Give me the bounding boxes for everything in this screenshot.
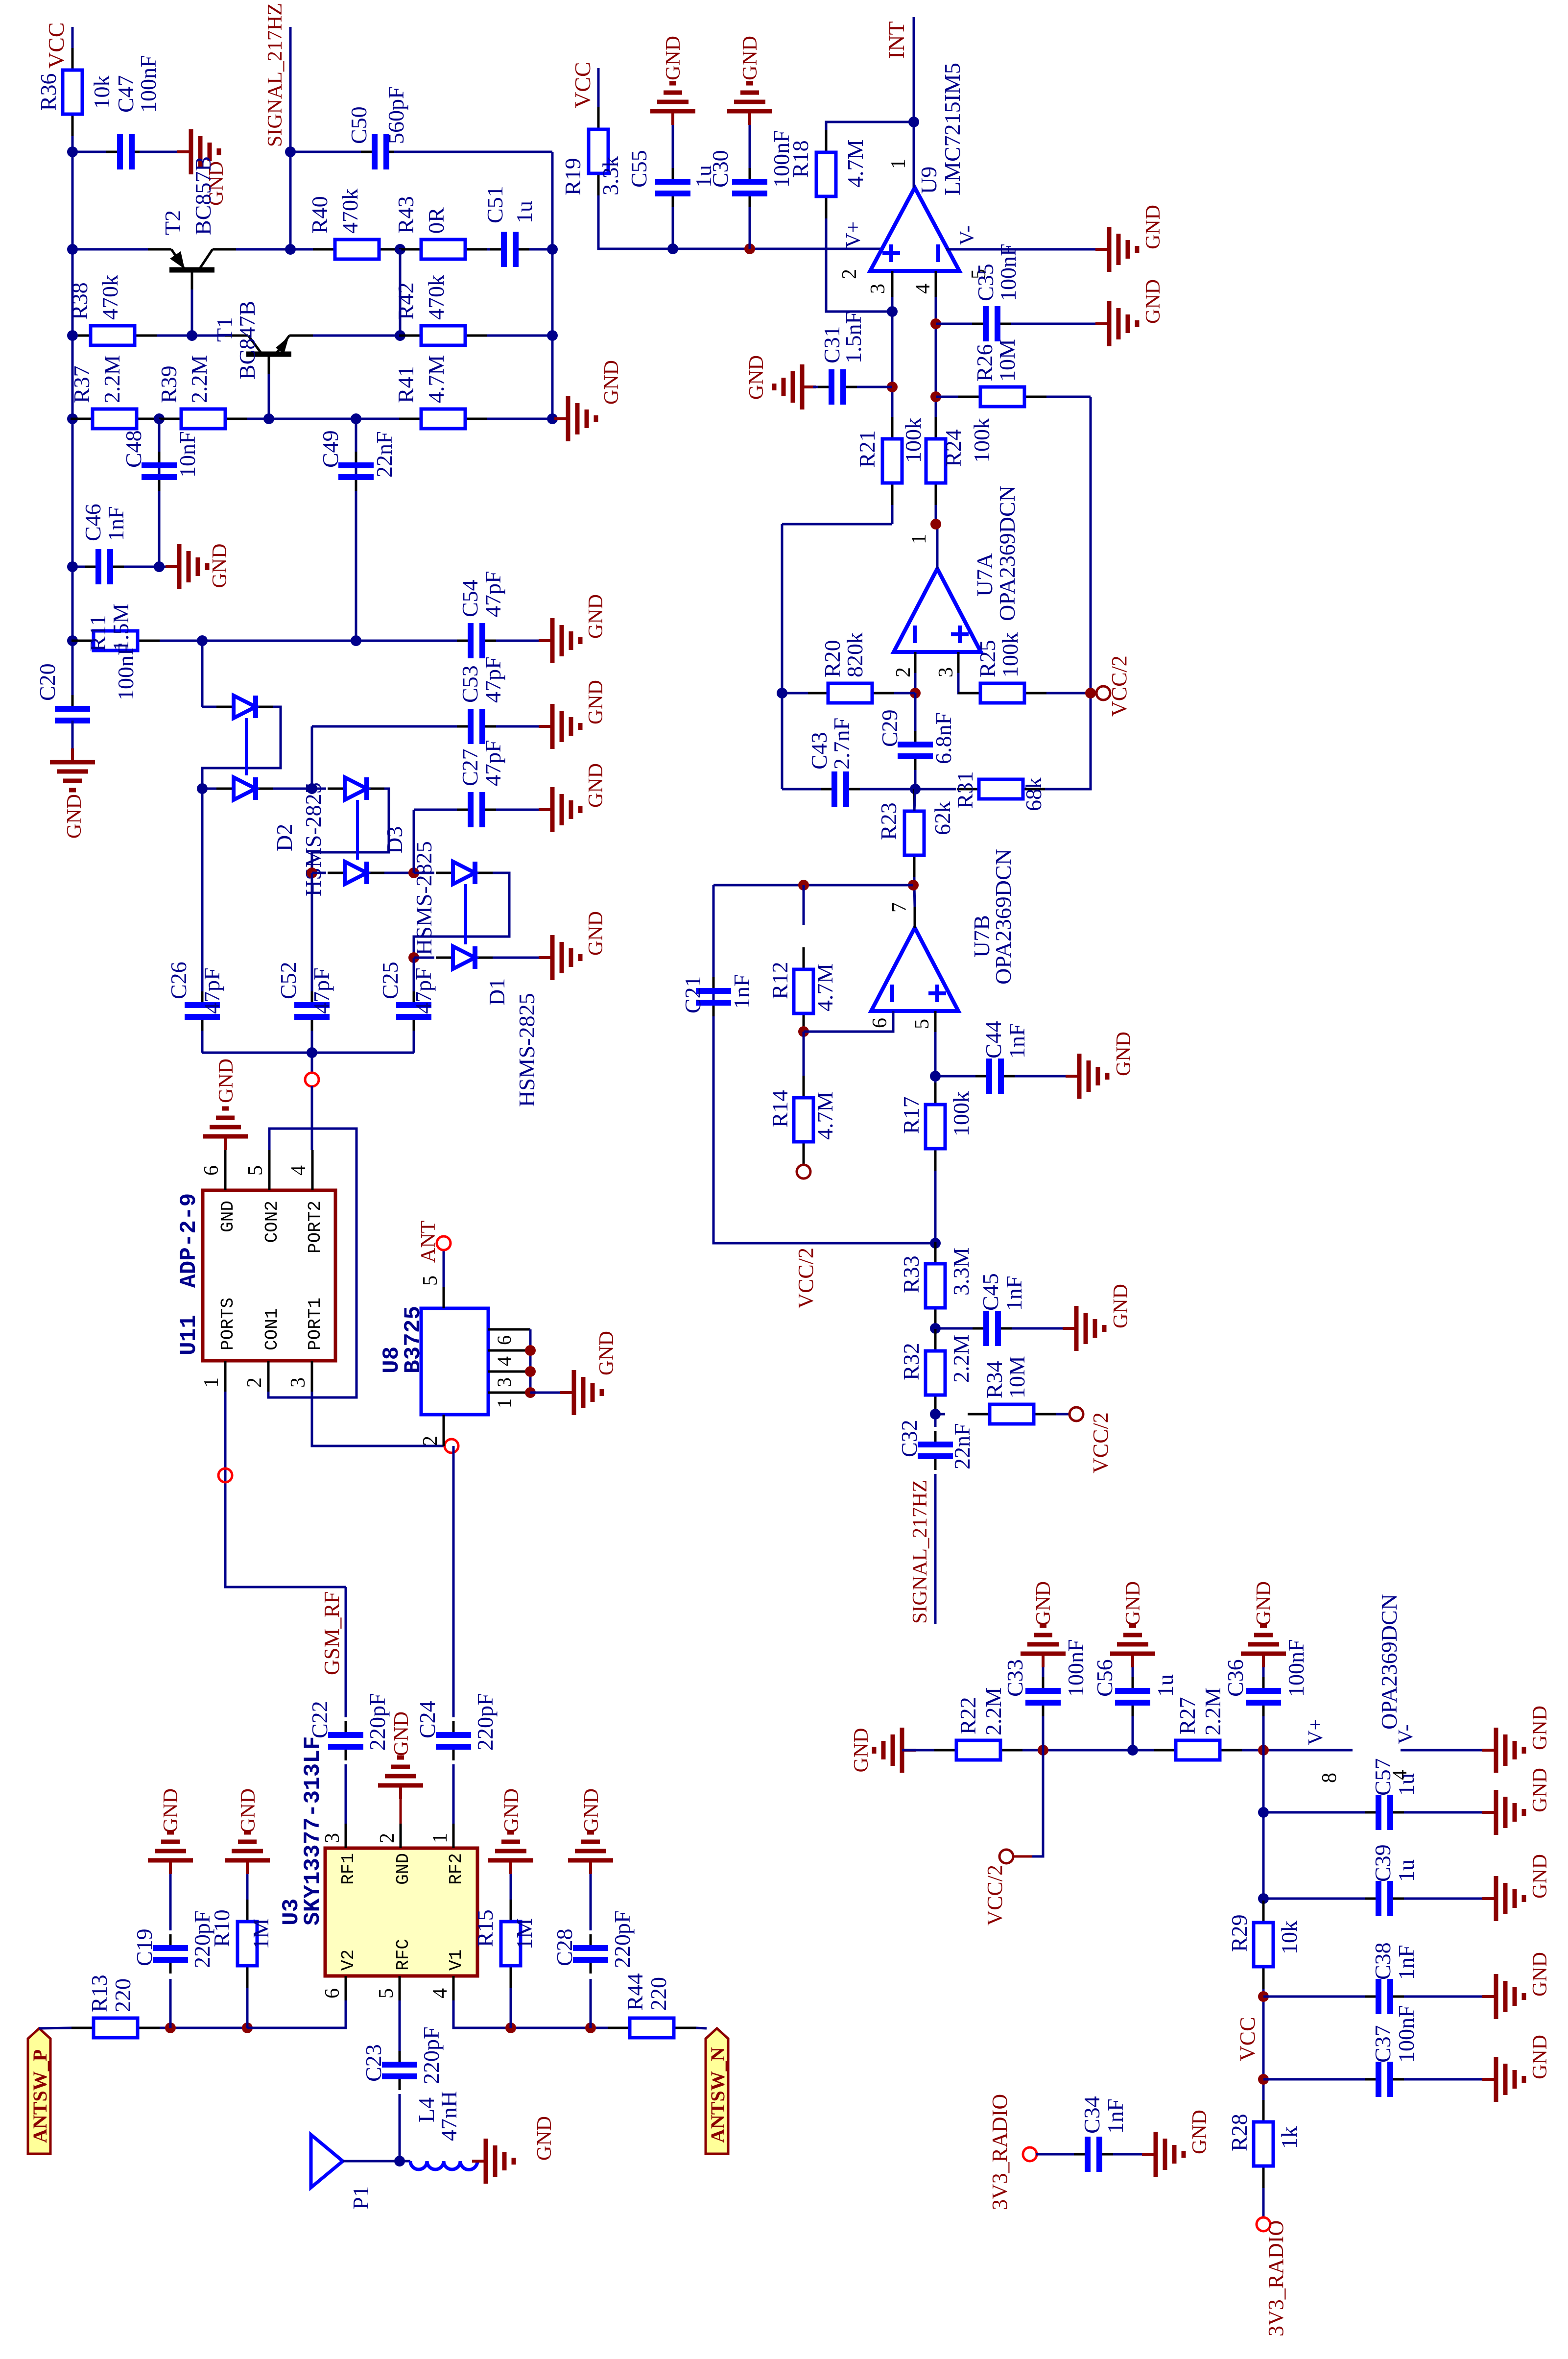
junction pin7 node (908, 880, 919, 891)
svg-text:GND: GND (600, 360, 623, 405)
svg-text:R34: R34 (982, 1361, 1007, 1398)
wire gnd stub (552, 418, 568, 420)
svg-text:C43: C43 (807, 732, 832, 770)
junction (395, 244, 405, 255)
diode D1 upper half (436, 872, 453, 874)
capacitor C53 (457, 725, 471, 728)
wire C44 to gnd (1015, 1075, 1066, 1078)
ground at C55 (671, 111, 674, 125)
svg-text:2: 2 (243, 1377, 266, 1388)
resistor R33 (934, 1308, 937, 1330)
svg-text:VCC: VCC (44, 22, 69, 69)
wire R40 R43 C51 column x=4302 (290, 248, 313, 251)
ground at C45 (1063, 1327, 1076, 1330)
U3 pin 1 lead (452, 1824, 455, 1848)
U8 pin 2 lead (443, 1415, 445, 1446)
wire R42 to y=1128 (487, 335, 552, 337)
wire to C32 (934, 1417, 937, 1427)
junction (547, 244, 558, 255)
resistor R14 (803, 1142, 805, 1164)
wire C53 to gnd (496, 725, 552, 728)
resistor R10 (246, 1966, 249, 1988)
svg-text:ANTSW_N: ANTSW_N (707, 2047, 729, 2143)
svg-text:L4: L4 (414, 2097, 439, 2122)
svg-text:R36: R36 (36, 73, 61, 111)
wire R43 to C51 (487, 248, 491, 251)
wire D2a z-link (202, 707, 281, 789)
wire node1 to C26 (202, 788, 216, 790)
wire R13 to junction (160, 2027, 247, 2029)
junction C39 (1258, 1893, 1269, 1904)
svg-text:5: 5 (419, 1276, 442, 1286)
junction C55 (667, 243, 678, 254)
wire C21 line y=1457 (713, 885, 935, 1243)
svg-text:V+: V+ (1305, 1719, 1327, 1745)
wire D3a z-link (312, 789, 389, 873)
wire U9 output INT (913, 17, 915, 188)
svg-text:1k: 1k (1277, 2126, 1302, 2149)
ground at L4 (472, 2160, 486, 2163)
svg-text:R10: R10 (209, 1909, 234, 1947)
junction C19 tee (165, 2022, 176, 2033)
wire U7B pin5 lead (934, 1011, 937, 1032)
resistor R38 (69, 335, 91, 337)
svg-text:47nH: 47nH (436, 2091, 461, 2141)
svg-text:C22: C22 (307, 1701, 332, 1738)
ground at C34 (1142, 2153, 1156, 2156)
junction C56 (1127, 1745, 1138, 1756)
wire branch x=4302 to x=4126 at y=817 (399, 249, 402, 336)
svg-text:C21: C21 (680, 976, 705, 1013)
capacitor C50 (361, 151, 375, 153)
svg-text:6.8nF: 6.8nF (931, 712, 956, 764)
junction R10 tee (242, 2022, 253, 2033)
svg-text:OPA2369DCN: OPA2369DCN (991, 849, 1016, 985)
svg-text:4: 4 (429, 1988, 451, 1998)
svg-text:R13: R13 (87, 1974, 112, 2012)
svg-text:RF2: RF2 (446, 1853, 466, 1885)
wire detector rail to U11 PORT2 (311, 1053, 313, 1073)
wire to R41 (356, 418, 421, 420)
wire R18 left lead to pin3 (826, 218, 892, 312)
svg-text:C52: C52 (276, 962, 301, 999)
svg-text:GND: GND (500, 1788, 523, 1833)
wire SIGNAL_217HZ y=593 (289, 27, 292, 249)
svg-text:10nF: 10nF (175, 431, 200, 478)
resistor R12 (803, 1013, 805, 1035)
svg-text:1M: 1M (248, 1918, 273, 1950)
wire C28 to gnd (590, 1874, 592, 1930)
junction R12 (798, 880, 809, 891)
ground at R15 (509, 1860, 512, 1874)
svg-text:1M: 1M (512, 1918, 537, 1950)
resistor R44 (608, 2027, 630, 2029)
junction C36 (1258, 1745, 1269, 1756)
wire C57 to gnd (1404, 1811, 1482, 1814)
capacitor C36 (1262, 1703, 1265, 1716)
svg-text:VCC/2: VCC/2 (1107, 655, 1131, 717)
svg-text:5: 5 (911, 1019, 933, 1029)
junction node3 (307, 867, 317, 878)
ground at C28 (589, 1860, 592, 1874)
junction (395, 330, 405, 341)
resistor R25 (958, 692, 980, 695)
svg-text:100k: 100k (901, 418, 926, 463)
junction R15 tee (505, 2022, 516, 2033)
capacitor C33 (1042, 1703, 1045, 1716)
svg-text:RF1: RF1 (338, 1853, 358, 1885)
svg-text:C19: C19 (132, 1928, 157, 1966)
junction T2 base (187, 330, 197, 341)
resistor R36 (71, 114, 74, 136)
svg-text:GND: GND (1110, 1284, 1132, 1328)
svg-text:1nF: 1nF (103, 506, 128, 541)
capacitor C37 (1365, 2078, 1378, 2081)
svg-text:GND: GND (393, 1853, 413, 1885)
wire C45 to gnd (1012, 1327, 1063, 1330)
junction VCC/2 (1085, 688, 1096, 698)
wire GSM_RF net pin3 to C22 (345, 1764, 347, 1824)
svg-text:OPA2369DCN: OPA2369DCN (1377, 1594, 1402, 1730)
svg-text:GND: GND (585, 911, 607, 956)
wire C36 to gnd (1262, 1667, 1265, 1677)
wire to R42 (400, 335, 421, 337)
svg-text:1nF: 1nF (729, 974, 754, 1009)
wire R37 line x=3956 (72, 418, 93, 420)
wire x=3741 to R20 line (781, 524, 784, 693)
U11 pin 4 lead (311, 1150, 314, 1190)
wire C30 to gnd (749, 125, 751, 168)
junction (154, 561, 165, 572)
capacitor C32 (934, 1456, 937, 1470)
svg-text:2.2M: 2.2M (949, 1335, 974, 1383)
terminal VCC/2 at R14 (797, 1165, 810, 1179)
svg-text:VCC/2: VCC/2 (1089, 1412, 1113, 1473)
svg-text:4: 4 (493, 1356, 515, 1366)
svg-text:GND: GND (1529, 2035, 1551, 2079)
flag ANTSW_N (706, 2028, 728, 2154)
svg-text:V-: V- (956, 226, 978, 245)
wire to C54 (356, 640, 471, 642)
svg-text:4: 4 (287, 1165, 310, 1176)
svg-text:100nF: 100nF (1283, 1639, 1308, 1697)
svg-text:C35: C35 (973, 264, 998, 301)
svg-text:68k: 68k (1021, 777, 1046, 811)
ground at C30 (748, 111, 751, 125)
svg-text:C46: C46 (80, 504, 105, 541)
svg-text:R29: R29 (1227, 1914, 1252, 1952)
U3 pin 4 lead (452, 1976, 455, 2000)
resistor R15 (510, 1966, 512, 1988)
op-amp U7A (894, 569, 981, 652)
svg-text:C26: C26 (166, 962, 191, 999)
wire R20 to junction (894, 692, 915, 695)
wire C50 branch x=4501 (290, 151, 363, 153)
junction C33 (1038, 1745, 1048, 1756)
ground at C35 (1095, 322, 1109, 325)
diode D1 lower half (436, 957, 453, 959)
svg-text:GND: GND (215, 1059, 238, 1103)
diode D3 lower half (328, 872, 345, 874)
wire flag P to R13 (39, 2028, 72, 2028)
svg-text:1: 1 (493, 1398, 515, 1408)
wire node4 to C27 corner (413, 810, 415, 873)
svg-text:10k: 10k (1277, 1921, 1302, 1954)
svg-text:GND: GND (1122, 1581, 1144, 1626)
wire to gnd (159, 566, 179, 568)
wire C46 line x=3654 (72, 566, 93, 568)
junction (67, 244, 78, 255)
diode D3 package link (356, 800, 359, 860)
wire R15 to gnd (510, 1874, 512, 1900)
svg-text:SIGNAL_217HZ: SIGNAL_217HZ (264, 3, 286, 147)
svg-text:62k: 62k (930, 801, 955, 835)
svg-text:R25: R25 (975, 640, 1000, 677)
junction rail R38 (67, 330, 78, 341)
wire R44 to flag N (696, 2028, 707, 2028)
svg-text:2: 2 (376, 1833, 399, 1843)
wire y=1128 bus (551, 152, 554, 419)
wire C54 to gnd (496, 640, 552, 642)
svg-text:100nF: 100nF (1063, 1639, 1088, 1697)
junction (525, 1345, 536, 1356)
svg-text:6: 6 (321, 1988, 344, 1998)
svg-text:2.2M: 2.2M (99, 355, 124, 403)
wire R14 to VCC/2 term (803, 1164, 805, 1165)
diode D3 upper half (312, 788, 326, 790)
U11 pin 3 lead (311, 1361, 313, 1392)
wire pin2- lead of U7A (914, 652, 917, 673)
wire pin3+ lead of U7A via R25 (957, 652, 960, 673)
svg-text:R21: R21 (855, 430, 879, 468)
svg-text:GND: GND (1142, 205, 1164, 249)
wire T2 base lead (191, 270, 193, 289)
wire C33 to gnd (1042, 1667, 1045, 1677)
svg-text:T2: T2 (160, 210, 185, 235)
ground left of C20 (71, 748, 74, 762)
svg-text:B3725: B3725 (401, 1306, 426, 1373)
resistor R13 (71, 2027, 94, 2029)
wire CON2-CON1 loop (268, 1129, 356, 1397)
svg-text:C55: C55 (626, 150, 651, 188)
capacitor C21 (713, 1003, 715, 1016)
svg-text:GND: GND (160, 1788, 182, 1833)
wire R34 to VCC/2 (1056, 1413, 1070, 1416)
resistor R28 (1262, 2166, 1265, 2188)
junction node5 (408, 952, 419, 963)
wire PORTS net from pin1 (225, 1392, 346, 1587)
svg-text:C36: C36 (1223, 1659, 1248, 1697)
wire T1 emitter down to junction (313, 335, 400, 337)
U11 pin 6 lead (224, 1150, 227, 1190)
svg-text:R15: R15 (473, 1909, 498, 1947)
svg-text:10M: 10M (1004, 1356, 1029, 1398)
svg-text:GND: GND (1253, 1581, 1275, 1626)
diode D1 package link (464, 884, 467, 944)
U3 pin 2 lead (400, 1824, 402, 1848)
wire R11 to node0 (160, 640, 202, 642)
wire C56 branch (1132, 1716, 1134, 1750)
wire C34 to gnd (1113, 2153, 1142, 2156)
svg-text:220pF: 220pF (610, 1910, 635, 1968)
wire SIGNAL_217HZ out (934, 1474, 937, 1624)
svg-text:R43: R43 (393, 196, 418, 234)
wire R26 to VCC/2 line (1046, 396, 1091, 398)
wire C49 branch y=727 (355, 419, 357, 641)
svg-text:R31: R31 (952, 771, 977, 809)
junction T1 base (263, 413, 274, 424)
wire node0 branch y=413 (201, 641, 204, 707)
svg-text:3V3_RADIO: 3V3_RADIO (1264, 2220, 1288, 2336)
svg-text:GND: GND (533, 2116, 556, 2161)
svg-text:R17: R17 (899, 1096, 924, 1134)
junction (285, 146, 296, 157)
wire RF2 pin1 to C24 (452, 1764, 455, 1824)
wire C43 branch x=3200 (782, 788, 821, 791)
wire R23 line (913, 877, 916, 885)
svg-text:1: 1 (429, 1833, 451, 1843)
wire R22 to chain (1022, 1749, 1353, 1752)
ground at R41 end (554, 417, 568, 420)
terminal circle ANT (437, 1236, 451, 1250)
wire C48 branch y=325 (158, 419, 161, 567)
junction antenna (394, 2156, 405, 2166)
junction C28 tee (585, 2022, 596, 2033)
svg-text:C33: C33 (1002, 1659, 1027, 1697)
svg-text:4.7M: 4.7M (812, 963, 837, 1011)
svg-text:GND: GND (1188, 2110, 1211, 2154)
svg-text:T1: T1 (212, 317, 237, 342)
capacitor C38 (1365, 1996, 1378, 1998)
svg-text:HSMS-2825: HSMS-2825 (411, 841, 436, 955)
ground at C46/C48 (166, 565, 179, 568)
svg-text:R38: R38 (67, 282, 92, 320)
junction R18 top (908, 117, 919, 127)
svg-text:P1: P1 (348, 2186, 373, 2210)
svg-text:R42: R42 (393, 282, 418, 320)
wire C56 to gnd (1132, 1667, 1134, 1677)
svg-text:22nF: 22nF (372, 431, 397, 478)
wire node2 to C53 corner (311, 726, 313, 789)
terminal circle ANT2 node (445, 1439, 458, 1453)
svg-text:PORT2: PORT2 (305, 1201, 325, 1253)
svg-text:C49: C49 (318, 430, 343, 468)
svg-text:VCC/2: VCC/2 (983, 1865, 1007, 1926)
svg-text:C51: C51 (482, 186, 507, 223)
svg-text:R12: R12 (767, 962, 792, 999)
U3 pin 3 lead (345, 1824, 347, 1848)
svg-text:U7A: U7A (972, 553, 997, 597)
junction (525, 1366, 536, 1377)
svg-text:100k: 100k (949, 1091, 974, 1136)
wire C55 branch (672, 207, 674, 249)
junction C35 (930, 318, 941, 329)
wire C28 branch y=1206 (590, 1979, 592, 2028)
svg-text:R26: R26 (972, 344, 997, 382)
svg-text:C56: C56 (1092, 1659, 1117, 1697)
wire C38 to gnd (1404, 1996, 1482, 1998)
svg-text:GND: GND (585, 680, 607, 724)
svg-text:C28: C28 (552, 1928, 577, 1966)
resistor R17 (934, 1149, 937, 1171)
svg-text:C47: C47 (113, 75, 138, 113)
wire C34 (1036, 2153, 1074, 2156)
wire PORT1 net from pin3 (312, 1392, 445, 1446)
resistor R42 (399, 335, 421, 337)
wire R34 branch (935, 1413, 945, 1416)
svg-text:R41: R41 (393, 365, 418, 403)
svg-text:C29: C29 (877, 709, 902, 747)
wire C30 branch (749, 207, 751, 249)
wire C22 up to PORTS corner (345, 1587, 347, 1717)
capacitor C20 (71, 721, 74, 734)
svg-text:GSM_RF: GSM_RF (320, 1591, 344, 1675)
capacitor C39 (1365, 1898, 1378, 1900)
svg-text:1nF: 1nF (1103, 2098, 1128, 2134)
capacitor C34 (1074, 2153, 1088, 2156)
wire C45 branch (935, 1327, 973, 1330)
junction R20 top (777, 688, 787, 698)
ground at C27 (539, 808, 552, 811)
junction (67, 146, 78, 157)
wire R31 below (915, 788, 956, 791)
ground at D1 (539, 956, 552, 959)
svg-text:R14: R14 (767, 1090, 792, 1128)
wire R39 to T1 base junction (247, 418, 269, 420)
svg-text:2: 2 (419, 1436, 442, 1446)
svg-text:3.3k: 3.3k (598, 156, 623, 196)
U3 pin 5 lead (399, 1976, 401, 2000)
ground at U3 pin2 (400, 1799, 402, 1824)
svg-text:R27: R27 (1175, 1697, 1200, 1734)
resistor R40 (313, 248, 335, 251)
wire D1a z-link (414, 873, 509, 958)
svg-text:47pF: 47pF (480, 571, 505, 617)
svg-text:OPA2369DCN: OPA2369DCN (995, 485, 1020, 621)
resistor R34 (968, 1413, 990, 1416)
wire C55 to gnd (672, 125, 674, 168)
svg-text:GND: GND (850, 1728, 873, 1773)
wire C38 branch (1263, 1996, 1365, 1998)
svg-text:R19: R19 (560, 158, 585, 195)
resistor R20 (806, 692, 828, 695)
svg-text:470k: 470k (424, 275, 449, 320)
wire C53 branch x=3328 (312, 725, 471, 728)
svg-text:U9: U9 (916, 167, 941, 194)
flag ANTSW_P (28, 2028, 50, 2154)
junction R26 (930, 391, 941, 402)
svg-text:R44: R44 (622, 1973, 647, 2011)
svg-text:VCC/2: VCC/2 (794, 1248, 818, 1309)
ground at C36 (1262, 1654, 1265, 1667)
svg-text:GND: GND (745, 355, 768, 400)
svg-text:3: 3 (321, 1833, 344, 1843)
wire C19 to gnd (169, 1874, 172, 1930)
wire C50 to y=1128 line (394, 151, 552, 153)
wire R20 tee (781, 693, 784, 789)
junction node2 (307, 783, 317, 794)
svg-text:2: 2 (892, 667, 915, 677)
svg-text:1u: 1u (1394, 1859, 1419, 1882)
ground at R10 (246, 1860, 249, 1874)
wire rf rail top corner (202, 1052, 414, 1054)
svg-text:SIGNAL_217HZ: SIGNAL_217HZ (909, 1480, 931, 1624)
capacitor C57 (1365, 1811, 1378, 1814)
capacitor C30 (749, 193, 751, 207)
svg-text:220: 220 (110, 1978, 135, 2012)
capacitor C46 (85, 566, 98, 568)
svg-text:D1: D1 (484, 978, 509, 1006)
